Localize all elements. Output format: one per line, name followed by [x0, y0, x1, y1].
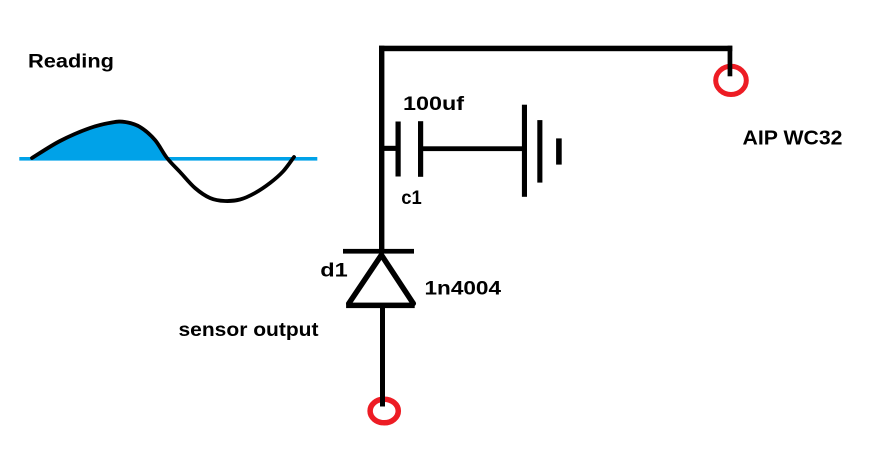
capacitor C1 right plate — [418, 121, 423, 177]
capacitor C1 stub wire — [384, 146, 396, 151]
battery middle plate — [537, 120, 542, 183]
wire left vertical — [379, 46, 384, 252]
wire right vertical drop — [728, 46, 733, 77]
diode D1 cathode bar — [343, 249, 414, 254]
svg-text:Reading: Reading — [28, 51, 114, 73]
svg-text:c1: c1 — [401, 187, 422, 209]
terminal sensor output (red circle) — [370, 399, 398, 423]
battery short plate — [556, 138, 562, 164]
capacitor C1 left plate — [396, 122, 401, 177]
waveform zero baseline — [19, 157, 317, 161]
wire diode to lower terminal — [380, 305, 385, 407]
svg-text:AIP WC32: AIP WC32 — [743, 127, 843, 150]
svg-text:100uf: 100uf — [403, 93, 465, 115]
sine waveform curve — [32, 122, 294, 202]
svg-text:1n4004: 1n4004 — [425, 278, 502, 300]
wire top horizontal — [379, 46, 732, 52]
svg-text:d1: d1 — [320, 259, 348, 281]
wire capacitor to battery — [423, 146, 522, 151]
terminal AIP WC32 (red circle) — [716, 66, 747, 94]
diode D1 triangle — [349, 255, 414, 304]
svg-text:sensor output: sensor output — [179, 319, 320, 341]
battery long plate — [522, 105, 527, 197]
waveform positive half fill — [32, 122, 167, 158]
